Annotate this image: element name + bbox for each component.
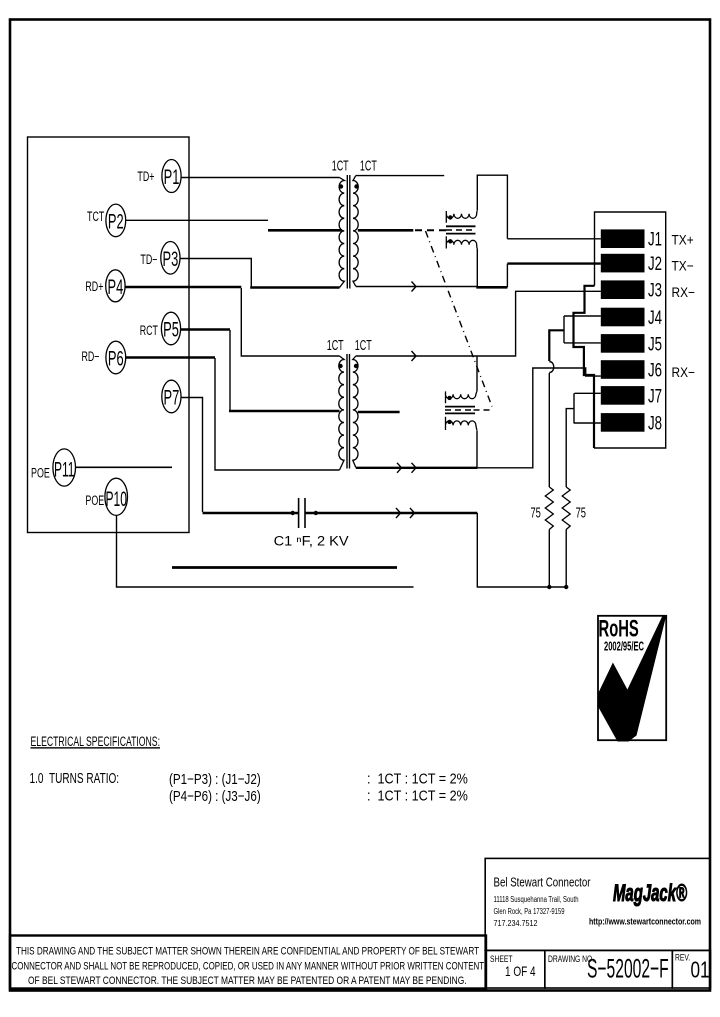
contact pad J5 bbox=[601, 334, 645, 353]
L2 bottom phase dot bbox=[447, 420, 451, 424]
pin P11 bbox=[53, 449, 76, 486]
svg-text:J7: J7 bbox=[648, 386, 662, 407]
wire P1 to T1 top bbox=[181, 177, 340, 179]
svg-text:RoHS: RoHS bbox=[599, 616, 639, 642]
svg-text:J5: J5 bbox=[648, 334, 662, 355]
wire J5 bbox=[564, 342, 601, 344]
svg-text:11118 Susquehanna Trail, South: 11118 Susquehanna Trail, South bbox=[494, 895, 579, 904]
wire L2 top to T2 top wire bbox=[476, 356, 478, 391]
drawing no box bbox=[545, 950, 673, 988]
weave path (shield trace) bbox=[574, 286, 595, 448]
contact pad J4 bbox=[601, 308, 645, 327]
T1 secondary phase dot bbox=[354, 184, 358, 188]
junction dot left of C1 bbox=[291, 511, 295, 515]
svg-text:P7: P7 bbox=[164, 385, 180, 409]
pin P5 bbox=[161, 312, 180, 345]
svg-text:MagJack®: MagJack® bbox=[613, 880, 687, 907]
L2 top winding bbox=[446, 391, 477, 403]
svg-text:S−52002−F: S−52002−F bbox=[587, 953, 669, 983]
wire P3 to T1 primary bottom bbox=[180, 259, 251, 288]
disclaimer box bbox=[10, 936, 486, 989]
svg-text:RX−: RX− bbox=[672, 284, 695, 300]
wire J4 bbox=[564, 315, 601, 317]
pin P4 bbox=[106, 270, 125, 302]
T2 core bbox=[346, 354, 348, 469]
wire T2 secondary bottom (thick) bbox=[356, 467, 478, 469]
svg-text:J6: J6 bbox=[648, 360, 662, 381]
svg-text:01: 01 bbox=[691, 958, 710, 983]
svg-text:TX+: TX+ bbox=[672, 232, 694, 248]
svg-text:P5: P5 bbox=[163, 317, 179, 341]
L2 core bbox=[445, 406, 475, 408]
svg-text:RX−: RX− bbox=[672, 364, 695, 380]
wire to J2 (thick) bbox=[507, 262, 600, 264]
svg-text:TX−: TX− bbox=[672, 258, 694, 274]
contact pad J2 bbox=[601, 254, 645, 273]
svg-text:J8: J8 bbox=[648, 413, 662, 434]
svg-text:1.0 TURNS RATIO:: 1.0 TURNS RATIO: bbox=[30, 769, 120, 786]
wire T1 primary bottom (thick) bbox=[250, 286, 339, 288]
svg-text:1CT: 1CT bbox=[332, 157, 349, 174]
sheet box bbox=[485, 950, 545, 988]
junction dot R1 bbox=[547, 585, 551, 589]
dash-dot crossover diagonal bbox=[426, 231, 493, 407]
arrow chevron on T1 secondary bottom bbox=[412, 282, 417, 292]
svg-text:RD+: RD+ bbox=[85, 280, 103, 294]
plug bottom bar (thick) bbox=[476, 286, 507, 289]
wire R2 bottom bbox=[565, 530, 567, 588]
wire T1 primary center tap bbox=[268, 229, 342, 232]
rev box bbox=[672, 950, 710, 988]
svg-text:POE: POE bbox=[85, 494, 104, 508]
svg-text:J3: J3 bbox=[648, 280, 662, 301]
component box U1 outline bbox=[28, 137, 190, 533]
contact pad J1 bbox=[601, 229, 645, 248]
svg-text:P6: P6 bbox=[108, 346, 124, 370]
wire J8 bbox=[574, 422, 601, 424]
wire to J1 bbox=[507, 238, 600, 240]
svg-text:1CT: 1CT bbox=[327, 337, 344, 354]
svg-text:REV.: REV. bbox=[675, 953, 690, 963]
pin P10 bbox=[105, 478, 128, 515]
dashed stub at bottom choke core right bbox=[474, 409, 493, 411]
wire T1 secondary top bbox=[356, 175, 444, 177]
contact pad J6 bbox=[601, 360, 645, 379]
L1 bottom winding bbox=[446, 236, 477, 248]
transformer T1 bbox=[332, 157, 378, 288]
L1 top phase dot bbox=[448, 215, 452, 219]
wire T1 secondary bottom bbox=[356, 286, 478, 288]
contact pad J8 bbox=[601, 413, 645, 432]
svg-text:(P1−P3) : (J1−J2): (P1−P3) : (J1−J2) bbox=[169, 770, 261, 787]
wire P4 to T2 primary top bbox=[125, 286, 241, 288]
junction dot right of C1 bbox=[314, 511, 318, 515]
dashed center tap extension to choke L1 bbox=[415, 229, 446, 231]
svg-text:J4: J4 bbox=[648, 308, 662, 329]
thick bus line bbox=[172, 566, 397, 569]
wire P5 to T2 center tap bbox=[181, 328, 230, 330]
svg-text:J1: J1 bbox=[648, 229, 662, 250]
svg-text:Glen Rock, Pa 17327-9159: Glen Rock, Pa 17327-9159 bbox=[494, 907, 565, 916]
choke L2 (bottom common-mode choke) bbox=[445, 391, 477, 430]
connector box J outline with weave bbox=[594, 212, 666, 448]
resistor R1 75 ohm bbox=[545, 487, 553, 530]
svg-text:TD+: TD+ bbox=[137, 170, 154, 184]
capacitor C1 wire right bbox=[306, 512, 478, 514]
wire R1 bottom bbox=[548, 530, 550, 588]
hop over J6 wire bbox=[549, 362, 554, 373]
svg-text:Bel Stewart Connector: Bel Stewart Connector bbox=[494, 875, 591, 890]
svg-text:J2: J2 bbox=[648, 254, 662, 275]
wire P2 (TCT) bbox=[126, 219, 268, 221]
wire tie to R2 bbox=[566, 409, 574, 487]
T2 primary winding bbox=[339, 356, 344, 470]
wire T2 secondary center tap bbox=[358, 411, 400, 414]
T1 primary phase dot bbox=[339, 184, 343, 188]
svg-text:TCT: TCT bbox=[87, 210, 104, 224]
svg-text:TD−: TD− bbox=[140, 253, 157, 267]
pin P1 bbox=[162, 160, 181, 193]
svg-text:C1 ⁿF, 2 KV: C1 ⁿF, 2 KV bbox=[274, 533, 350, 549]
L1 bottom phase dot bbox=[448, 239, 452, 243]
L1 core bbox=[446, 225, 476, 227]
junction dot R2 bbox=[564, 585, 568, 589]
pin P7 bbox=[162, 380, 181, 413]
svg-text:CONNECTOR AND SHALL NOT BE REP: CONNECTOR AND SHALL NOT BE REPRODUCED, C… bbox=[12, 959, 485, 972]
svg-text:717.234.7512: 717.234.7512 bbox=[494, 919, 538, 928]
arrow chevrons on T2 secondary bottom bbox=[397, 463, 402, 473]
svg-text:75: 75 bbox=[576, 504, 586, 521]
svg-text:P3: P3 bbox=[163, 246, 179, 270]
resistor R2 75 ohm bbox=[562, 487, 570, 530]
svg-text:P4: P4 bbox=[108, 274, 124, 298]
svg-text:ELECTRICAL SPECIFICATIONS:: ELECTRICAL SPECIFICATIONS: bbox=[31, 733, 161, 749]
T2 secondary phase dot bbox=[354, 364, 358, 368]
wire J7 bbox=[575, 392, 601, 394]
RoHS logo bbox=[598, 616, 666, 742]
wire T2 secondary top to J3 bbox=[356, 291, 601, 356]
T2 primary phase dot bbox=[338, 364, 342, 368]
svg-text:POE: POE bbox=[31, 467, 50, 481]
wire hop to R1 top bbox=[548, 373, 550, 487]
svg-text:RD−: RD− bbox=[81, 350, 99, 364]
T1 primary winding bbox=[339, 178, 344, 288]
svg-text:: 1CT : 1CT = 2%: : 1CT : 1CT = 2% bbox=[367, 787, 468, 804]
pin P2 bbox=[106, 204, 126, 237]
svg-text:THIS DRAWING AND THE SUBJECT M: THIS DRAWING AND THE SUBJECT MATTER SHOW… bbox=[16, 944, 479, 957]
svg-text:RCT: RCT bbox=[140, 324, 158, 338]
title block box bbox=[485, 858, 710, 950]
svg-text:P1: P1 bbox=[164, 165, 180, 189]
svg-text:(P4−P6) : (J3−J6): (P4−P6) : (J3−J6) bbox=[169, 787, 261, 804]
wire P11 stub bbox=[76, 466, 173, 468]
svg-text:http://www.stewartconnector.co: http://www.stewartconnector.com bbox=[589, 917, 701, 928]
svg-text:1CT: 1CT bbox=[355, 337, 372, 354]
svg-text:P2: P2 bbox=[108, 209, 124, 233]
arrow chevron on T2 secondary top bbox=[412, 351, 417, 361]
svg-text:P10: P10 bbox=[105, 486, 126, 511]
wire T1 secondary center tap bbox=[358, 229, 414, 232]
L1 top winding bbox=[446, 211, 477, 223]
svg-text:1 OF 4: 1 OF 4 bbox=[505, 963, 536, 979]
L2 bottom winding bbox=[446, 417, 477, 430]
choke L1 (top common-mode choke) bbox=[446, 211, 477, 249]
plug outline top (around L1) bbox=[477, 175, 507, 239]
transformer T2 bbox=[327, 337, 373, 470]
contact pad J3 bbox=[601, 280, 645, 299]
wire tie to R1 (thick) bbox=[549, 330, 564, 361]
wire P10 down and right bbox=[117, 515, 414, 587]
bottom rail bbox=[477, 513, 566, 587]
pin P3 bbox=[161, 241, 180, 274]
wire P6 to T2 primary bottom bbox=[126, 356, 215, 358]
pin P6 bbox=[106, 341, 126, 374]
tie J4-J5 bbox=[563, 316, 565, 343]
wire T2 primary center tap (thick) bbox=[229, 410, 340, 413]
svg-text:75: 75 bbox=[531, 504, 541, 521]
svg-text:2002/95/EC: 2002/95/EC bbox=[604, 640, 644, 654]
svg-text:P11: P11 bbox=[54, 457, 75, 482]
svg-text:1CT: 1CT bbox=[360, 157, 377, 174]
capacitor C1 wire left bbox=[203, 512, 299, 514]
svg-text:OF BEL STEWART CONNECTOR. THE: OF BEL STEWART CONNECTOR. THE SUBJECT MA… bbox=[28, 973, 467, 986]
svg-text:: 1CT : 1CT = 2%: : 1CT : 1CT = 2% bbox=[367, 770, 468, 787]
contact pad J7 bbox=[601, 386, 645, 405]
tie J7-J8 bbox=[573, 393, 575, 423]
T1 secondary winding bbox=[353, 176, 358, 287]
wire L2 bottom to J6 bbox=[476, 430, 478, 468]
wire P7 down to capacitor row bbox=[181, 398, 203, 513]
T1 core bbox=[346, 175, 348, 289]
L2 top phase dot bbox=[447, 396, 451, 400]
T2 secondary winding bbox=[353, 356, 358, 468]
arrow chevrons on C1 wire bbox=[396, 508, 401, 518]
capacitor C1 bbox=[298, 498, 300, 528]
